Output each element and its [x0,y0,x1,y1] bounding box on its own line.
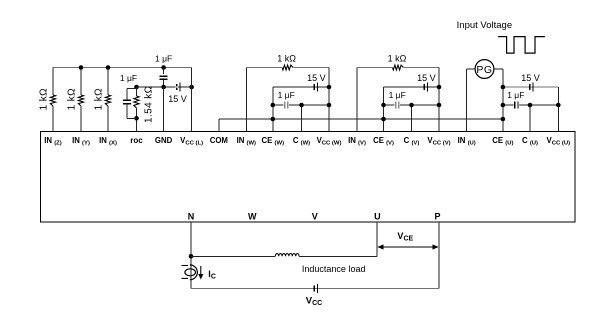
svg-text:W: W [248,212,257,222]
svg-text:15 V: 15 V [307,73,326,83]
svg-text:15 V: 15 V [417,73,436,83]
svg-text:Inductance load: Inductance load [302,264,366,274]
svg-text:P: P [434,212,440,222]
svg-text:U: U [374,212,381,222]
svg-text:1.54 kΩ: 1.54 kΩ [144,85,155,123]
svg-text:1 μF: 1 μF [507,90,524,100]
svg-text:15 V: 15 V [168,94,187,104]
svg-text:1 μF: 1 μF [278,90,295,100]
svg-text:COM: COM [210,136,228,145]
svg-text:1 kΩ: 1 kΩ [93,88,104,111]
svg-text:N: N [188,212,195,222]
svg-text:1 μF: 1 μF [389,90,406,100]
svg-text:1 kΩ: 1 kΩ [277,54,296,64]
svg-text:1 μF: 1 μF [155,54,172,64]
svg-text:Input Voltage: Input Voltage [457,20,512,31]
svg-text:1 kΩ: 1 kΩ [66,88,77,111]
svg-text:15 V: 15 V [521,73,540,83]
svg-text:PG: PG [476,64,492,76]
svg-text:V: V [312,212,318,222]
svg-text:GND: GND [155,136,173,145]
svg-text:1 μF: 1 μF [120,73,137,83]
svg-text:1 kΩ: 1 kΩ [38,88,49,111]
svg-text:roc: roc [130,136,143,145]
svg-text:1 kΩ: 1 kΩ [388,54,407,64]
